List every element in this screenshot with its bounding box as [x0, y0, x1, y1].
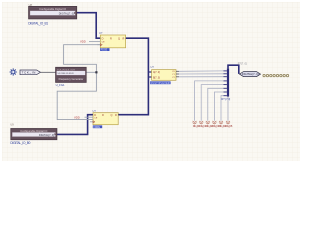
svg-text:R: R	[115, 114, 117, 117]
svg-text:R: R	[110, 37, 112, 40]
sheet symbol U9 Configurable Digital IO (bottom)	[10, 123, 57, 140]
svg-text:DIGITAL[7..0]: DIGITAL[7..0]	[242, 72, 259, 76]
wire: Q of U1 and Q of U3 joined to multiplexer inputs (navy bus)	[118, 38, 148, 115]
svg-text:P?[7..0]: P?[7..0]	[238, 62, 247, 66]
svg-text:VDD: VDD	[74, 115, 80, 119]
svg-text:DIG_D0DIG_D1DIG_D2DIG_D3DIG_D4: DIG_D0DIG_D1DIG_D2DIG_D3DIG_D4DIG_D5	[193, 124, 233, 128]
pin D	[90, 114, 93, 116]
pin stubs	[223, 71, 227, 96]
junction clock net	[95, 71, 97, 73]
flip-flop U3	[85, 109, 122, 125]
multiplexer U2	[151, 65, 180, 80]
svg-text:B[7..0]: B[7..0]	[153, 76, 160, 79]
svg-text:FDRE: FDRE	[94, 126, 101, 129]
pin CE	[89, 40, 100, 42]
bus connector bar	[227, 68, 229, 96]
svg-text:Configurable Digital IO: Configurable Digital IO	[20, 129, 47, 133]
pin D	[97, 37, 100, 39]
pin R	[90, 121, 93, 123]
clock net from frequency generator (grey)	[86, 71, 96, 73]
port TCK_IN	[20, 70, 41, 75]
sheet symbol frequency generator	[56, 67, 87, 82]
flip-flop U1	[89, 31, 129, 48]
pin C	[90, 119, 93, 121]
clock branch up to U1 C pin	[64, 45, 101, 73]
pin Y2	[176, 76, 179, 78]
pin Y1	[176, 73, 179, 75]
wire: net DIGITAL_B1 bus from sheet symbol U8 to U1 D pin	[77, 13, 101, 39]
svg-text:Configurable Digital IO: Configurable Digital IO	[39, 7, 66, 11]
wire: sheet symbol U9 output to U3 D pin	[57, 115, 93, 135]
svg-text:R: R	[123, 37, 125, 40]
wire port to frequency generator	[41, 71, 56, 73]
sheet background	[0, 0, 300, 161]
svg-text:U?: U?	[93, 109, 97, 113]
wire stub to U2 pin A	[148, 71, 151, 73]
pin CE	[85, 116, 94, 118]
svg-text:Q: Q	[118, 37, 120, 40]
bus to port	[228, 65, 239, 74]
svg-text:U?: U?	[151, 65, 155, 69]
svg-text:MULTIPLEXER: MULTIPLEXER	[151, 83, 170, 85]
wires multiplexer outputs to bus pins	[179, 70, 223, 72]
svg-text:CE: CE	[102, 42, 106, 44]
svg-text:14.7456 CLKDIV: 14.7456 CLKDIV	[57, 73, 74, 75]
wire stub to U2 pin B	[148, 76, 151, 78]
off sheet chevrons	[193, 121, 230, 124]
pin Y0	[176, 70, 179, 72]
pin Q	[126, 37, 129, 39]
svg-text:U?: U?	[99, 31, 103, 35]
svg-text:R?.[7.0]: R?.[7.0]	[222, 98, 231, 101]
svg-text:Q: Q	[111, 114, 113, 117]
clock branch down to U3 C pin	[57, 72, 96, 119]
svg-text:FDSE: FDSE	[101, 49, 108, 52]
svg-text:R: R	[102, 114, 104, 117]
wire drops to net labels	[195, 81, 224, 121]
svg-text:DIGITAL_IO_B0: DIGITAL_IO_B0	[10, 141, 30, 145]
value label U_MULTIPLEXER (selected)	[150, 81, 171, 84]
svg-text:DIGITAL[7..0]: DIGITAL[7..0]	[59, 13, 74, 16]
svg-text:DIGITAL_IO_B1: DIGITAL_IO_B1	[28, 21, 48, 25]
svg-text:U9: U9	[10, 123, 14, 127]
svg-text:U_FG1: U_FG1	[56, 83, 65, 87]
svg-text:TCK_IN: TCK_IN	[22, 71, 36, 75]
svg-text:CE: CE	[94, 117, 98, 119]
pin C	[97, 44, 100, 46]
svg-text:Frequency Generator: Frequency Generator	[59, 77, 84, 81]
pin Q	[118, 114, 121, 116]
svg-text:D: D	[102, 37, 104, 40]
svg-text:A[7..0]: A[7..0]	[153, 71, 160, 74]
clock source icon	[10, 68, 17, 75]
sheet symbol U8 Configurable Digital IO (top)	[29, 3, 77, 19]
port DIGITAL[7..0]	[240, 72, 261, 77]
value label FDSE (selected)	[100, 48, 109, 51]
value label FDRE (selected)	[93, 125, 102, 128]
svg-text:DIGITAL[7..0]: DIGITAL[7..0]	[39, 134, 54, 137]
test pads row	[263, 74, 289, 76]
svg-text:VDD: VDD	[80, 39, 86, 43]
